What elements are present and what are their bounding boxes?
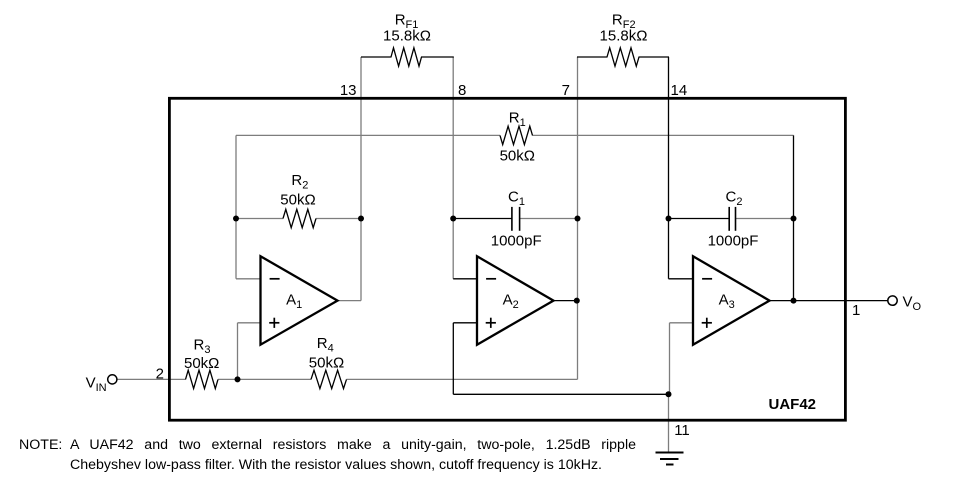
wire: R1 feedback line left segment bbox=[236, 134, 500, 136]
svg-text:R1: R1 bbox=[509, 110, 526, 130]
wire: input rail VIN to R3 bbox=[117, 378, 186, 380]
resistor R1 zigzag bbox=[500, 126, 533, 144]
svg-text:R3: R3 bbox=[194, 337, 211, 357]
svg-text:1000pF: 1000pF bbox=[708, 233, 759, 250]
wire: RF1 top lead right bbox=[421, 56, 454, 58]
svg-text:50kΩ: 50kΩ bbox=[184, 355, 219, 372]
svg-text:VO: VO bbox=[903, 293, 922, 313]
wire: A3 output to VO terminal bbox=[770, 300, 888, 302]
node: ground junction pin 11 bbox=[666, 391, 672, 397]
op-amp A3 bbox=[693, 256, 770, 344]
resistor RF1 zigzag bbox=[391, 48, 422, 66]
svg-text:15.8kΩ: 15.8kΩ bbox=[383, 28, 431, 45]
node: C2 left / pin 14 junction bbox=[666, 216, 672, 222]
wire: A2 inverting input stub bbox=[453, 278, 477, 280]
resistor R4 zigzag bbox=[311, 370, 347, 388]
wire: A2 output stub bbox=[554, 300, 578, 302]
wire: C2 left lead bbox=[669, 218, 730, 220]
wire: C2 right lead bbox=[736, 218, 794, 220]
svg-text:C2: C2 bbox=[726, 189, 743, 209]
svg-text:50kΩ: 50kΩ bbox=[309, 354, 344, 371]
wire: A3 noninverting input vertical to ground node bbox=[669, 323, 671, 395]
wire: RF2 top lead right bbox=[639, 56, 670, 58]
node: C2 right junction bbox=[791, 216, 797, 222]
svg-text:VIN: VIN bbox=[86, 374, 107, 394]
node: C1 left / pin 8 junction bbox=[450, 216, 456, 222]
wire: A3 noninverting input stub bbox=[670, 322, 694, 324]
svg-text:UAF42: UAF42 bbox=[769, 396, 817, 413]
wire: R2 left lead bbox=[236, 218, 283, 220]
node: R3/R4 junction bbox=[235, 376, 241, 382]
wire: A1 noninverting input stub bbox=[238, 322, 262, 324]
wire: A3 inverting input stub bbox=[669, 278, 694, 280]
node: A3 output junction bbox=[791, 298, 797, 304]
svg-text:R2: R2 bbox=[291, 172, 308, 192]
svg-text:15.8kΩ: 15.8kΩ bbox=[600, 28, 648, 45]
ground symbol pin 11 bbox=[656, 452, 684, 454]
resistor RF2 zigzag bbox=[607, 48, 639, 66]
resistor R2 zigzag bbox=[283, 209, 316, 227]
svg-text:1000pF: 1000pF bbox=[491, 233, 542, 250]
wire: pin 14 vertical (A3 inverting input net) bbox=[668, 57, 670, 279]
svg-text:8: 8 bbox=[458, 82, 466, 99]
note text bbox=[19, 435, 639, 476]
wire: A3 output feedback vertical bbox=[793, 135, 795, 300]
wire: RF1 left vertical (pin 13 net, A1 output) bbox=[360, 57, 362, 301]
svg-text:R4: R4 bbox=[317, 335, 334, 355]
op-amp A2 bbox=[477, 256, 554, 344]
node: R2 right / pin 13 junction bbox=[358, 216, 364, 222]
svg-text:1: 1 bbox=[852, 302, 860, 319]
wire: R3 to R4 segment bbox=[218, 378, 311, 380]
svg-text:50kΩ: 50kΩ bbox=[500, 148, 535, 165]
wire: RF1 top lead left bbox=[361, 56, 392, 58]
svg-text:50kΩ: 50kΩ bbox=[280, 192, 315, 209]
wire: A1 noninverting input vertical to R3/R4 node bbox=[237, 323, 239, 380]
resistor R3 zigzag bbox=[186, 370, 219, 388]
node: C1 right / pin 7 junction bbox=[575, 216, 581, 222]
svg-text:14: 14 bbox=[671, 82, 688, 99]
capacitor C1 plates bbox=[511, 207, 513, 231]
capacitor C2 plates bbox=[728, 207, 730, 231]
svg-text:13: 13 bbox=[340, 82, 357, 99]
svg-text:7: 7 bbox=[562, 82, 570, 99]
wire: R2 right lead bbox=[316, 218, 361, 220]
wire: RF2 left vertical (pin 7 net, A2 output) bbox=[577, 57, 579, 379]
UAF42 package box bbox=[169, 98, 845, 420]
wire: A1 output to pin 13 net bbox=[338, 300, 362, 302]
wire: C1 left lead bbox=[453, 218, 512, 220]
node: A2 output junction bbox=[574, 298, 580, 304]
terminal VIN circle bbox=[108, 375, 117, 384]
svg-text:11: 11 bbox=[674, 422, 690, 439]
wire: A2 noninverting input vertical bbox=[452, 323, 454, 395]
wire: A1 inverting input stub bbox=[236, 278, 261, 280]
wire: ground return line to pin 11 node bbox=[453, 393, 668, 395]
wire: A1 inverting input vertical bbox=[235, 135, 237, 278]
wire: RF2 top lead left bbox=[577, 56, 608, 58]
wire: R1 feedback line right segment bbox=[533, 134, 794, 136]
wire: ground lead pin 11 bbox=[668, 394, 670, 452]
wire: RF1 right vertical (pin 8 net, A2 inverting input) bbox=[452, 57, 454, 279]
wire: R4 to pin 7 net segment bbox=[347, 378, 578, 380]
svg-text:2: 2 bbox=[156, 366, 164, 383]
wire: A2 noninverting input stub bbox=[453, 322, 477, 324]
terminal VO circle bbox=[888, 296, 897, 305]
wire: C1 right lead bbox=[520, 218, 578, 220]
svg-text:C1: C1 bbox=[508, 189, 525, 209]
node: R2 left junction bbox=[233, 216, 239, 222]
op-amp A1 bbox=[261, 256, 338, 344]
